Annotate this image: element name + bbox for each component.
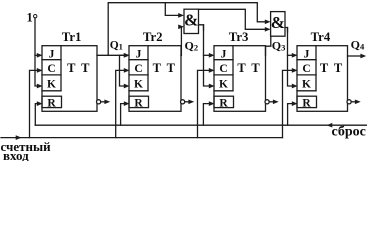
wire: reset riser to R input of Tr3	[203, 104, 209, 126]
reset bus (сброс) along bottom	[35, 124, 366, 126]
svg-text:R: R	[219, 98, 228, 110]
svg-text:Q1: Q1	[110, 40, 123, 52]
wire: reset riser to R input of Tr4	[288, 104, 293, 126]
flip-flop Tr2	[129, 46, 181, 112]
inverted output circle and arrow of Tr4	[347, 100, 356, 104]
wire: gate D2 output down to Tr4 J/K	[285, 28, 288, 33]
pin labels J C K R of Tr2	[134, 48, 143, 109]
arrowhead on reset bus pointing left	[327, 123, 333, 128]
pin labels J C K R of Tr1	[47, 48, 56, 109]
svg-text:C: C	[47, 63, 55, 75]
flip-flop Tr1	[42, 46, 97, 112]
svg-text:Tr1: Tr1	[62, 30, 82, 44]
svg-text:R: R	[47, 98, 56, 110]
svg-text:T T: T T	[320, 61, 344, 75]
wire: clock riser to C input of Tr3	[198, 70, 210, 137]
svg-text:C: C	[302, 63, 310, 75]
pin J input arrow of Tr1	[35, 54, 37, 56]
svg-text:R: R	[134, 98, 143, 110]
inverted output circle and arrow of Tr1	[97, 100, 106, 104]
svg-text:T T: T T	[153, 61, 177, 75]
svg-text:J: J	[221, 48, 227, 60]
wire: J/K tie line with K input arrow of Tr1	[35, 18, 37, 86]
svg-text:&: &	[184, 10, 198, 29]
svg-text:J: J	[49, 48, 55, 60]
wire: Q2 stub and riser to gate D1 input 2	[180, 27, 183, 56]
wire: gate D1 top output to gate D2 input 2	[199, 9, 268, 29]
inverted output circle and arrow of Tr3	[265, 100, 274, 104]
inverted output circle and arrow of Tr2	[181, 100, 190, 104]
pin J input arrow of Tr2	[120, 54, 125, 56]
and-gate D2	[271, 12, 285, 37]
svg-text:Tr3: Tr3	[229, 30, 249, 44]
wire: J/K tie line with K input arrow of Tr2	[120, 55, 125, 86]
pin labels J C K R of Tr3	[219, 48, 228, 109]
arrowhead on clock bus	[16, 135, 22, 140]
svg-text:C: C	[134, 63, 142, 75]
pin J input arrow of Tr4	[288, 54, 293, 56]
wire: reset riser to R input of Tr2	[121, 104, 125, 126]
svg-text:сброс: сброс	[332, 125, 366, 140]
svg-text:T T: T T	[67, 61, 91, 75]
wire: Q1 from Tr1 to Tr2 J input	[97, 54, 124, 56]
svg-text:R: R	[302, 98, 311, 110]
svg-text:вход: вход	[3, 148, 29, 161]
flip-flop Tr3	[214, 46, 266, 112]
wire: J/K tie line with K input arrow of Tr4	[288, 28, 293, 87]
svg-text:1: 1	[26, 11, 32, 25]
wire: clock riser to C input of Tr2	[116, 70, 125, 137]
wire: clock riser to C input of Tr1	[30, 70, 38, 137]
wire: J/K tie line with K input arrow of Tr3	[204, 25, 210, 86]
svg-text:J: J	[136, 48, 142, 60]
svg-text:J: J	[304, 48, 310, 60]
pin J input arrow of Tr3	[204, 54, 210, 56]
wire: top bus from node Q1 to gate D2	[108, 3, 267, 56]
flip-flop Tr4	[297, 46, 348, 112]
wire: clock riser to C input of Tr4	[283, 70, 293, 137]
wire: gate D1 output down to Tr3 J/K	[199, 25, 204, 30]
clock bus (счетный вход) along bottom	[1, 137, 283, 139]
svg-text:Tr2: Tr2	[143, 30, 163, 44]
svg-text:K: K	[134, 78, 143, 90]
wire arrowheads into gate inputs	[178, 13, 270, 24]
terminal circle of constant-1 source	[34, 15, 37, 18]
svg-text:K: K	[47, 78, 56, 90]
wire: Q4 output arrow	[348, 55, 362, 57]
svg-text:&: &	[271, 13, 285, 32]
svg-text:K: K	[219, 78, 228, 90]
svg-text:C: C	[219, 63, 227, 75]
wire: top bus branch down to gate D1 input 1	[165, 3, 180, 16]
wire: reset riser to R input of Tr1	[35, 104, 37, 126]
pin labels J C K R of Tr4	[302, 48, 311, 109]
wire: Q3 stub jog up into gate D2 bottom	[266, 36, 271, 55]
svg-text:T T: T T	[237, 61, 261, 75]
svg-text:K: K	[302, 78, 311, 90]
svg-text:Tr4: Tr4	[311, 30, 331, 44]
and-gate D1	[184, 9, 199, 33]
